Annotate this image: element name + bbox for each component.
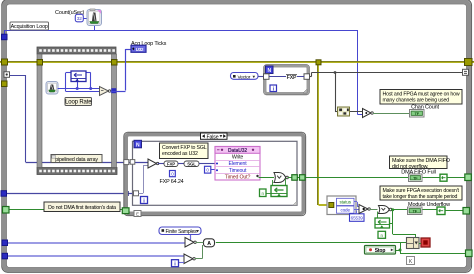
for loop N terminal xyxy=(266,66,274,74)
label Loop Rate xyxy=(65,98,92,106)
wire bool finite1 xyxy=(8,242,185,244)
for loop resize glyph xyxy=(303,89,307,93)
junction blue at sequence border xyxy=(111,88,116,93)
node FXP convert xyxy=(269,75,304,82)
tunnel left blue d xyxy=(2,253,8,258)
enum Vector xyxy=(231,73,265,81)
icon array-size grid xyxy=(338,107,350,116)
constant 0 fxp xyxy=(170,171,176,177)
or gate case xyxy=(274,173,288,183)
indicator Chan Count xyxy=(410,110,425,118)
tunnel left navy xyxy=(1,191,7,197)
text Module Underflow xyxy=(408,202,450,208)
case structure inner frame xyxy=(133,141,298,205)
wire acq-loop-ticks xyxy=(111,49,132,92)
wire pipelined array upper xyxy=(9,75,148,163)
equal node error xyxy=(359,205,370,214)
wire bool finite2 xyxy=(8,255,184,257)
subtract triangle loop-rate xyxy=(100,87,111,96)
wire chan count bool xyxy=(373,113,410,115)
text Chan Count xyxy=(411,105,439,111)
svg-text:Finite Samples: Finite Samples xyxy=(166,229,198,235)
svg-text:FXP 64.24: FXP 64.24 xyxy=(160,179,184,185)
junction pipeline at seq-left border xyxy=(37,160,42,165)
text DMA FIFO Full xyxy=(401,170,435,176)
svg-text:65539: 65539 xyxy=(351,216,364,221)
wire bool A-output xyxy=(216,242,407,244)
convert triangle xyxy=(148,159,159,168)
text Count(uSec) xyxy=(55,10,85,16)
svg-text:U32: U32 xyxy=(136,47,144,52)
svg-text:False: False xyxy=(207,134,219,140)
enum Finite Samples xyxy=(159,227,201,240)
tunnel for-loop right xyxy=(304,74,310,80)
node To-FXP pill xyxy=(158,161,178,167)
svg-text:FXP: FXP xyxy=(167,161,175,166)
svg-text:Acquisition Loop: Acquisition Loop xyxy=(11,24,48,30)
svg-text:Element: Element xyxy=(229,161,248,167)
tunnel wrapper-left pipeline xyxy=(124,160,129,165)
svg-text:Timeout: Timeout xyxy=(229,168,247,174)
svg-text:Timed Out?: Timed Out? xyxy=(225,175,251,181)
feedback init 2 xyxy=(378,231,386,238)
equal node finite xyxy=(185,238,196,248)
tunnel case-left pipeline xyxy=(130,160,135,165)
svg-text:32: 32 xyxy=(77,16,83,22)
constant timeout xyxy=(205,166,216,173)
label do-not-dma xyxy=(44,202,120,212)
for loop FXP-convert frame xyxy=(264,65,310,95)
tunnel left blue top xyxy=(2,34,8,40)
wire case riser xyxy=(139,165,149,194)
tunnel pipeline case xyxy=(134,191,139,196)
wire chan-count dark xyxy=(309,71,463,111)
misc glyph box xyxy=(407,257,415,266)
stop button xyxy=(365,246,396,255)
wire error branch vertical xyxy=(318,62,328,205)
junction yellow cluster xyxy=(329,203,334,208)
svg-text:SGL: SGL xyxy=(187,161,196,166)
node To-SGL pill xyxy=(178,161,199,167)
comment host-fpga xyxy=(380,90,462,105)
tunnel do-not-dma on wrapper border xyxy=(122,208,129,214)
svg-text:Vector: Vector xyxy=(238,74,251,80)
wire timed-out to or xyxy=(259,177,275,179)
junction pipeline lower at loop border xyxy=(124,191,129,196)
wire or-out tunnels xyxy=(288,177,465,179)
tunnel left small white xyxy=(4,72,10,78)
svg-text:pipelined data array: pipelined data array xyxy=(55,157,98,163)
label Acquisition Loop xyxy=(10,22,49,30)
text FXP 64.24 xyxy=(160,179,184,185)
register underflow line xyxy=(437,207,445,215)
svg-text:N: N xyxy=(267,68,271,74)
comment convert-fxp xyxy=(160,143,209,159)
wire grid to equal xyxy=(350,111,363,113)
feedback node loop-rate xyxy=(71,71,86,82)
wire loop-rate feedback xyxy=(58,73,100,92)
svg-text:Loop Rate: Loop Rate xyxy=(65,100,92,106)
and node A xyxy=(196,239,215,247)
wire to fifo element xyxy=(199,163,215,165)
indicator U32 Acq Loop Ticks xyxy=(131,45,146,52)
clock icon Loop Timer xyxy=(46,82,58,95)
icon Tick Count xyxy=(87,9,102,26)
svg-text:take longer than the sample pe: take longer than the sample period xyxy=(383,194,458,200)
loop condition terminal xyxy=(419,238,430,247)
tunnel right dark xyxy=(463,69,469,75)
tunnel right green dma xyxy=(465,174,472,181)
wire underflow line xyxy=(390,208,465,238)
svg-text:Do not DMA first iteration's d: Do not DMA first iteration's data xyxy=(48,205,116,211)
svg-text:encoded as U32: encoded as U32 xyxy=(162,151,198,157)
wire U32 count top xyxy=(4,25,363,115)
wire eq to or2 xyxy=(370,209,378,211)
svg-text:A: A xyxy=(207,241,211,247)
case bottom glyph box xyxy=(134,211,141,217)
tunnel left olive a xyxy=(2,59,8,65)
constant 65539 xyxy=(350,211,365,222)
comment underflow xyxy=(380,186,462,200)
tunnel forloop-right green xyxy=(300,175,306,181)
feedback init case xyxy=(260,189,272,197)
sequence structure frame xyxy=(37,47,117,175)
tunnel left olive b xyxy=(2,81,8,87)
svg-text:E: E xyxy=(136,212,139,217)
for loop i terminal xyxy=(270,85,277,92)
wire do-not-dma green xyxy=(9,209,123,211)
junction error branch xyxy=(316,60,321,65)
tunnel left blue c xyxy=(2,240,8,246)
feedback node 2 xyxy=(375,212,390,229)
wire error cluster yellow xyxy=(0,61,474,64)
register dma line xyxy=(440,174,447,181)
tunnel left green xyxy=(3,207,10,214)
junction error at sequence right xyxy=(112,60,118,66)
equal comparison node xyxy=(363,109,374,118)
svg-text:Stop: Stop xyxy=(375,248,386,254)
tunnel for-loop left xyxy=(264,74,270,80)
svg-text:Write: Write xyxy=(232,155,244,161)
svg-text:many channels are being used: many channels are being used xyxy=(383,98,450,104)
compound or node xyxy=(407,238,420,249)
wire status code out xyxy=(354,202,359,210)
svg-text:DataU32: DataU32 xyxy=(228,148,247,154)
text Acq Loop Ticks xyxy=(131,41,167,47)
iteration i constant xyxy=(172,260,179,268)
junction error at sequence left xyxy=(37,60,43,66)
cluster status code xyxy=(327,196,356,215)
equal node finite2 xyxy=(179,245,203,264)
wire bool stop-route xyxy=(396,243,466,254)
indicator DMA FIFO Full xyxy=(409,174,423,182)
case N terminal xyxy=(134,140,142,148)
indicator Module Underflow xyxy=(408,207,423,215)
or gate 2 xyxy=(379,206,392,214)
tunnel right green stop xyxy=(466,250,473,257)
svg-text:status: status xyxy=(340,200,352,205)
junction pipeline at seq-right border xyxy=(112,160,117,165)
for loop outer frame (case wrapper) xyxy=(124,132,306,216)
label pipelined data array xyxy=(51,155,102,163)
comment dma-fifo xyxy=(390,156,450,170)
tunnel right green underflow xyxy=(463,208,470,215)
wire pipelined array lower xyxy=(2,162,136,194)
svg-text:FXP: FXP xyxy=(287,75,297,81)
constant 32 xyxy=(75,14,87,22)
svg-text:N: N xyxy=(136,142,140,148)
case i terminal xyxy=(141,197,148,205)
feedback node case xyxy=(271,179,287,197)
FIFO Write node DataU32 xyxy=(215,147,260,181)
tunnel right olive xyxy=(465,59,473,66)
svg-text:code: code xyxy=(341,207,351,212)
case selector label False xyxy=(201,133,228,140)
tunnel case-right green xyxy=(292,175,298,181)
